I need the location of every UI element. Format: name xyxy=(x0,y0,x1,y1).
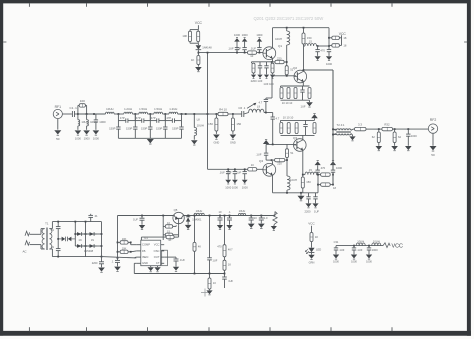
capacitor (decoupling to inverted ground) xyxy=(242,42,246,53)
wire xyxy=(271,76,273,98)
wire (bridge mid) xyxy=(85,222,87,257)
wire xyxy=(286,190,288,193)
wire xyxy=(304,45,306,47)
ground xyxy=(213,135,220,140)
junction xyxy=(198,52,200,54)
junction xyxy=(101,256,103,258)
wire xyxy=(272,159,275,161)
ground xyxy=(251,75,256,79)
ground xyxy=(54,130,61,135)
capacitor C24 xyxy=(174,257,179,266)
capacitor (shunt to bus) xyxy=(179,121,183,139)
wire xyxy=(329,44,332,46)
wire xyxy=(163,234,165,236)
inductor L4 xyxy=(124,112,133,114)
resistor R20 (feedback) xyxy=(275,158,285,161)
inductor L1 (shunt) xyxy=(78,120,80,126)
wire xyxy=(197,65,199,67)
wire xyxy=(317,175,319,193)
net stub (VCC) xyxy=(383,243,390,248)
capacitor C6 (series) xyxy=(242,111,244,117)
svg-text:1N: 1N xyxy=(78,239,81,242)
wire (Q4 emitter) xyxy=(272,175,274,193)
wire xyxy=(134,256,136,259)
transistor Q5 (pass, PNP) xyxy=(173,212,184,225)
junction xyxy=(302,174,304,176)
svg-text:10UH: 10UH xyxy=(275,37,282,41)
wire (Q2 base line) xyxy=(272,75,296,77)
wire xyxy=(75,113,78,115)
svg-text:1000: 1000 xyxy=(333,260,339,264)
wire xyxy=(317,45,330,47)
svg-text:62: 62 xyxy=(398,135,402,139)
wire xyxy=(128,251,131,253)
output port RF2 xyxy=(428,124,437,133)
inductor L9 (variable) xyxy=(249,109,264,112)
svg-text:VCC: VCC xyxy=(154,243,160,247)
capacitor C21 (shunt) xyxy=(406,129,410,146)
ground xyxy=(305,203,311,207)
wire xyxy=(309,100,311,102)
wire xyxy=(86,126,88,130)
ground xyxy=(315,56,321,60)
junction xyxy=(93,113,95,115)
wire xyxy=(173,225,177,227)
junction xyxy=(232,113,234,115)
junction xyxy=(286,159,288,161)
ground (inverted) xyxy=(330,161,336,165)
resistor R33 (shunt) xyxy=(393,132,396,143)
svg-text:1000: 1000 xyxy=(84,137,91,141)
svg-text:1000: 1000 xyxy=(242,186,249,190)
svg-text:1K: 1K xyxy=(191,58,195,62)
ground xyxy=(391,146,398,151)
wire (PSU rail) xyxy=(118,215,276,217)
diode D2 (bridge) xyxy=(77,232,82,236)
svg-text:Q3: Q3 xyxy=(293,136,297,140)
inductor L10 (choke) xyxy=(287,31,290,45)
ground xyxy=(154,267,160,272)
junction xyxy=(188,215,190,217)
svg-text:1N: 1N xyxy=(91,239,94,242)
capacitor (parallel across inductor) xyxy=(118,114,135,123)
wire (bus) xyxy=(281,119,315,121)
transformer T2 xyxy=(333,129,353,135)
ground xyxy=(242,180,248,184)
junction xyxy=(194,215,196,217)
junction xyxy=(187,215,189,217)
wire (Q2 collector) xyxy=(303,46,305,71)
component (feedback block) xyxy=(162,250,168,266)
svg-text:.1UF: .1UF xyxy=(235,47,241,51)
wire xyxy=(78,104,79,106)
ground xyxy=(326,56,332,60)
wire xyxy=(394,143,396,146)
junction xyxy=(272,144,274,146)
ground xyxy=(349,136,355,140)
svg-text:100: 100 xyxy=(80,99,85,103)
wire (Q3 base line) xyxy=(266,143,296,145)
inductor L15 xyxy=(238,213,245,215)
svg-text:1K: 1K xyxy=(228,263,231,267)
svg-text:1000: 1000 xyxy=(372,248,379,252)
junction xyxy=(328,37,330,39)
svg-text:C6 .1: C6 .1 xyxy=(238,106,245,110)
wire xyxy=(341,35,343,45)
wire xyxy=(140,237,142,240)
svg-text:10UH: 10UH xyxy=(373,239,380,243)
svg-text:47P: 47P xyxy=(151,116,156,120)
svg-text:1K: 1K xyxy=(168,238,171,242)
wire xyxy=(86,105,88,114)
ground xyxy=(298,196,305,201)
wire xyxy=(228,113,242,115)
wire xyxy=(286,144,288,148)
resistor R17 xyxy=(287,88,290,99)
resistor R43 xyxy=(208,278,211,289)
svg-text:10UH: 10UH xyxy=(196,209,203,213)
wire xyxy=(328,28,330,46)
wire xyxy=(303,174,305,176)
wire (to combiner) xyxy=(304,69,334,71)
svg-text:4K7: 4K7 xyxy=(228,248,233,252)
wire xyxy=(85,104,86,106)
wire xyxy=(141,236,166,238)
svg-text:1000: 1000 xyxy=(232,186,239,190)
junction xyxy=(332,184,334,186)
capacitor C14 xyxy=(300,86,304,100)
svg-text:.1UF: .1UF xyxy=(179,258,185,262)
svg-text:470: 470 xyxy=(320,48,325,52)
svg-text:10UH: 10UH xyxy=(290,178,297,182)
transformer T1 xyxy=(41,222,52,257)
wire xyxy=(378,143,380,146)
junction xyxy=(85,245,87,247)
resistor R12 (bias) xyxy=(285,66,288,75)
junction xyxy=(227,168,229,170)
svg-text:1000: 1000 xyxy=(75,137,82,141)
capacitor (decoupling to ground) xyxy=(226,169,230,179)
svg-text:150P: 150P xyxy=(172,126,179,130)
junction xyxy=(193,113,195,115)
capacitor (decoupling to ground) xyxy=(233,169,237,179)
wire (bus) xyxy=(281,134,315,136)
svg-text:.1UF: .1UF xyxy=(219,171,225,175)
junction xyxy=(332,134,334,136)
junction xyxy=(219,215,221,217)
capacitor (VCC decoupling) xyxy=(334,246,338,255)
wire xyxy=(102,257,137,258)
ground xyxy=(270,75,275,79)
resistor R26 xyxy=(301,177,304,188)
wire xyxy=(272,113,274,118)
wire (bias pair bottom) xyxy=(190,30,198,44)
svg-text:1.2UH: 1.2UH xyxy=(124,107,132,111)
svg-text:1000: 1000 xyxy=(366,260,372,264)
wire xyxy=(175,225,177,226)
wire xyxy=(318,184,321,186)
junction xyxy=(224,273,226,275)
wire xyxy=(131,250,137,253)
svg-text:1UF: 1UF xyxy=(212,258,217,262)
svg-text:18: 18 xyxy=(343,44,347,48)
capacitor C30 xyxy=(222,277,227,288)
wire (bias pair top) xyxy=(190,29,198,31)
inductor L13 xyxy=(305,172,317,175)
wire xyxy=(164,256,176,258)
diode pair (transient clamp) xyxy=(58,237,75,242)
wire xyxy=(130,242,132,244)
wire (emitter bus) xyxy=(252,61,273,63)
ground xyxy=(308,255,314,260)
border line (top) xyxy=(0,0,470,3)
svg-text:10K: 10K xyxy=(122,246,127,250)
svg-text:150P: 150P xyxy=(109,126,116,130)
wire xyxy=(118,251,121,253)
junction xyxy=(317,174,319,176)
wire (top rail) xyxy=(273,27,330,29)
capacitor (snubber, lower) xyxy=(56,239,61,257)
ground xyxy=(248,224,255,229)
wire xyxy=(311,253,313,255)
resistor R13 (collector load) xyxy=(302,33,305,44)
svg-text:4.7: 4.7 xyxy=(259,101,263,105)
junction xyxy=(185,113,187,115)
wire xyxy=(339,37,341,39)
svg-text:VCC: VCC xyxy=(308,222,315,226)
junction xyxy=(229,215,231,217)
junction xyxy=(332,128,334,130)
svg-text:150: 150 xyxy=(306,180,311,184)
inductor L11 xyxy=(305,43,317,46)
junction xyxy=(57,221,59,223)
wire xyxy=(148,113,154,115)
junction xyxy=(286,61,288,63)
junction xyxy=(74,221,76,223)
wire xyxy=(97,233,102,235)
wire xyxy=(280,86,282,87)
ground xyxy=(98,268,105,273)
junction xyxy=(207,52,209,54)
junction xyxy=(149,113,151,115)
svg-text:L9: L9 xyxy=(257,104,261,108)
ground xyxy=(258,224,265,229)
ground (inverted) xyxy=(315,161,321,165)
capacitor C11 xyxy=(264,62,268,73)
wire xyxy=(311,226,313,233)
junction xyxy=(74,233,76,235)
capacitor C8 (coupling down) xyxy=(271,117,275,119)
resistor R15 xyxy=(332,44,340,47)
wire xyxy=(128,241,131,243)
ground (inverted) xyxy=(242,38,248,42)
wire xyxy=(251,62,253,63)
ground xyxy=(376,146,383,151)
resistor R39 (zigzag) xyxy=(273,212,277,225)
junction xyxy=(271,61,273,63)
resistor R11 (feedback) xyxy=(275,60,284,63)
resistor R14 xyxy=(332,36,340,39)
wire xyxy=(209,289,211,290)
ground xyxy=(232,180,238,184)
diode D3 (bridge) xyxy=(90,232,95,236)
capacitor C19 xyxy=(306,193,310,203)
wire xyxy=(187,215,189,218)
wire xyxy=(284,61,287,63)
ground xyxy=(230,135,237,140)
junction xyxy=(378,128,380,130)
wire xyxy=(329,37,332,39)
wire xyxy=(86,114,88,120)
wire xyxy=(286,28,288,31)
inductor L5 xyxy=(139,112,148,114)
svg-text:OUT: OUT xyxy=(154,255,160,259)
svg-text:47P: 47P xyxy=(136,116,141,120)
junction xyxy=(271,159,273,161)
ground xyxy=(271,226,277,230)
inductor L12 (choke) xyxy=(287,176,290,190)
capacitor C12 (shunt) xyxy=(315,46,319,56)
resistor R42 xyxy=(223,260,226,270)
wire (node N1) xyxy=(264,112,273,114)
registration cross xyxy=(201,289,209,297)
wire xyxy=(77,126,79,130)
wire (Q1 collector) xyxy=(272,28,274,48)
wire xyxy=(101,257,103,262)
wire xyxy=(215,131,217,134)
wire xyxy=(75,245,96,247)
capacitor (shunt to bus) xyxy=(133,121,137,139)
junction xyxy=(207,113,209,115)
wire xyxy=(197,43,199,45)
wire xyxy=(208,113,219,115)
svg-text:Q2: Q2 xyxy=(293,66,297,70)
junction xyxy=(209,215,211,217)
svg-text:10UH: 10UH xyxy=(357,239,364,243)
wire xyxy=(266,159,272,161)
svg-text:1UF: 1UF xyxy=(228,279,233,283)
AC source xyxy=(25,231,41,245)
svg-text:10K: 10K xyxy=(122,237,127,241)
wire xyxy=(266,73,268,74)
capacitor C29 xyxy=(259,216,264,224)
junction xyxy=(265,112,267,114)
svg-text:.1UF: .1UF xyxy=(235,171,241,175)
ground xyxy=(366,255,372,260)
wire (filter ground bus) xyxy=(118,137,181,139)
junction xyxy=(162,215,164,217)
capacitor (filter) xyxy=(88,214,93,222)
junction xyxy=(328,45,330,47)
svg-text:18: 18 xyxy=(333,186,337,190)
junction xyxy=(57,256,59,258)
resistor R5 (shunt) xyxy=(215,118,218,131)
capacitor C22 xyxy=(99,262,104,267)
svg-text:10 10 10: 10 10 10 xyxy=(283,116,294,120)
junction xyxy=(117,242,119,244)
svg-text:ISEN: ISEN xyxy=(142,255,148,259)
svg-text:1N4001: 1N4001 xyxy=(192,217,202,221)
junction xyxy=(244,52,246,54)
resistor R16 xyxy=(280,88,283,99)
transistor Q3 xyxy=(294,139,307,152)
svg-text:220: 220 xyxy=(277,161,282,165)
junction xyxy=(260,215,262,217)
junction xyxy=(85,221,87,223)
svg-text:Q201 Q202 2SC1971 2SC1972 50W: Q201 Q202 2SC1971 2SC1972 50W xyxy=(254,16,324,21)
junction xyxy=(85,233,87,235)
wire xyxy=(266,97,272,99)
wire xyxy=(286,160,288,176)
svg-text:220: 220 xyxy=(277,56,282,60)
svg-text:150: 150 xyxy=(307,36,312,40)
wire xyxy=(215,114,217,118)
inductor L16 xyxy=(356,243,365,246)
svg-text:.15: .15 xyxy=(308,168,312,172)
svg-text:1UF: 1UF xyxy=(133,218,138,222)
ground xyxy=(217,225,223,230)
svg-text:R4 10: R4 10 xyxy=(219,107,227,111)
ground (inverted) xyxy=(257,38,263,42)
inductor L8 (shunt) xyxy=(194,128,196,136)
svg-text:C31: C31 xyxy=(334,240,339,244)
svg-text:COMP: COMP xyxy=(142,243,150,247)
wire xyxy=(173,234,179,236)
capacitor C25 xyxy=(140,216,145,225)
arrow (variable adjust) xyxy=(247,103,256,109)
junction xyxy=(209,273,211,275)
svg-text:GND: GND xyxy=(214,141,220,145)
svg-text:150P: 150P xyxy=(141,126,148,130)
junction xyxy=(101,245,103,247)
capacitor C17 (shunt, inverted) xyxy=(316,165,320,174)
inductor L2 (shunt) xyxy=(87,120,89,126)
resistor R19 xyxy=(308,88,311,99)
diode D5 (bridge) xyxy=(90,244,95,248)
junction xyxy=(224,215,226,217)
ground (rail) xyxy=(300,193,302,196)
junction xyxy=(244,168,246,170)
ground xyxy=(226,225,232,230)
wire (rect top rail) xyxy=(52,221,101,223)
wire (Q4 collector) xyxy=(272,162,274,165)
resistor R30 xyxy=(355,127,367,130)
junction xyxy=(317,184,319,186)
ground xyxy=(83,130,90,135)
svg-text:GRN: GRN xyxy=(309,260,315,264)
resistor R9 xyxy=(252,63,255,73)
wire xyxy=(178,113,208,115)
capacitor (shunt to bus) xyxy=(148,121,152,139)
wire (Q2 emitter) xyxy=(302,82,304,86)
junction xyxy=(259,52,261,54)
ground xyxy=(225,180,231,184)
capacitor C27 xyxy=(227,216,232,225)
wire xyxy=(209,216,211,258)
capacitor C18 (shunt, inverted) xyxy=(331,165,335,174)
regulator IC U1 xyxy=(136,240,164,266)
junction xyxy=(286,192,288,194)
capacitor (decoupling to inverted ground) xyxy=(257,42,261,53)
junction xyxy=(286,75,288,77)
svg-text:.1UF: .1UF xyxy=(339,248,345,252)
svg-text:.15: .15 xyxy=(308,40,312,44)
wire (bottom rail) xyxy=(273,192,319,194)
svg-text:Q5: Q5 xyxy=(174,208,178,212)
svg-text:.01: .01 xyxy=(94,214,98,218)
ground (inverted) xyxy=(234,38,240,42)
wire xyxy=(77,114,79,120)
